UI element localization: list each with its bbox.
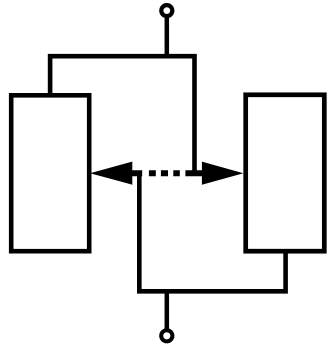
box B2 (right): [246, 95, 325, 251]
terminal T2 (bottom): [161, 330, 172, 341]
arrowhead right: [202, 162, 244, 185]
wire bottom stub to T2: [165, 291, 170, 329]
terminal T1 (top): [161, 5, 172, 16]
arrowhead left: [90, 162, 132, 185]
box B1 (left): [11, 95, 89, 251]
dashed coupling line: [132, 170, 202, 176]
wire top stub from T1 to top bus: [165, 16, 170, 59]
wire top bus: left box top, up, across, down to arrow: [50, 56, 194, 173]
wire bottom bus: from arrow down, across, up into right box bottom: [139, 173, 285, 291]
